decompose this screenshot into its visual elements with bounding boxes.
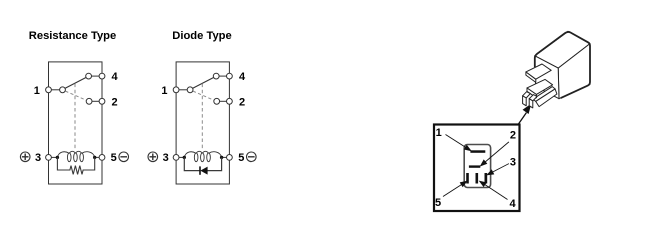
minus polarity symbol (K2) [247, 152, 257, 162]
svg-text:2: 2 [510, 130, 516, 142]
junction dot left (K2) [183, 156, 186, 159]
wire NO contact to pin4 (K1) [89, 75, 102, 77]
NC contact circle (K1) [86, 98, 92, 104]
relay top face [535, 31, 590, 68]
junction dot left (K1) [56, 156, 59, 159]
svg-text:1: 1 [436, 127, 442, 139]
NC contact circle (K2) [214, 98, 220, 104]
svg-text:2: 2 [111, 97, 117, 109]
svg-text:5: 5 [435, 197, 441, 209]
svg-text:Resistance Type: Resistance Type [29, 30, 116, 42]
relay K1 (Resistance Type) outline box [49, 62, 103, 184]
wire diode branch (K2) [184, 157, 221, 170]
plus polarity symbol (K2) [148, 152, 158, 162]
relay left face [535, 56, 559, 99]
relay blade pin C (small left) [523, 92, 531, 106]
resistor R (K1 parallel resistor) [57, 157, 94, 174]
svg-text:3: 3 [163, 152, 169, 164]
plus polarity symbol (K1) [20, 152, 30, 162]
svg-text:4: 4 [239, 71, 246, 83]
wire pin3 to coil (K1) [51, 156, 57, 158]
svg-text:4: 4 [111, 71, 118, 83]
wire coil to pin5 (K2) [222, 156, 227, 158]
pin 1 slot [470, 150, 485, 153]
terminal circle pin 3 (K1) [46, 155, 52, 161]
pin 2 slot [469, 165, 480, 167]
leader arrow for pin 5 [443, 181, 467, 196]
relay 3D body [535, 31, 590, 98]
junction dot right (K1) [93, 156, 96, 159]
pivot terminal circle (K1) [60, 87, 66, 93]
wire pin3 to coil (K2) [179, 156, 184, 158]
terminal circle pin 4 (K2) [227, 73, 233, 79]
minus polarity symbol (K1) [119, 152, 129, 162]
svg-text:1: 1 [161, 85, 167, 97]
svg-text:3: 3 [35, 152, 41, 164]
terminal circle pin 3 (K2) [173, 155, 179, 161]
svg-text:3: 3 [510, 157, 516, 169]
relay blade pin E (front wide) [533, 87, 557, 107]
terminal circle pin 2 (K2) [227, 98, 233, 104]
switch common arm contact (K2) [193, 77, 214, 88]
wire pin2 contact (K1) [89, 100, 102, 102]
wire pin2 contact (K2) [217, 100, 230, 102]
terminal circle pin 5 (K1) [99, 155, 105, 161]
actuation dashed link (K1) [74, 84, 76, 149]
terminal circle pin 2 (K1) [99, 98, 105, 104]
wire NO contact to pin4 (K2) [216, 75, 229, 77]
wire coil to pin5 (K1) [95, 156, 99, 158]
dashed alternate contact position (K2) [193, 91, 214, 100]
relay right face [558, 44, 590, 99]
pin identification box [434, 125, 520, 212]
leader arrow for pin 3 [487, 164, 509, 175]
switch common arm contact (K1) [65, 77, 86, 88]
svg-text:5: 5 [111, 152, 117, 164]
relay outer thick edges [535, 32, 590, 98]
NO contact circle (K2) [213, 73, 219, 79]
wire pin1 to pivot (K1) [49, 89, 63, 91]
relay blade pin D (small middle) [529, 95, 537, 108]
svg-text:1: 1 [34, 85, 40, 97]
svg-text:5: 5 [238, 152, 244, 164]
wire pin1 to pivot (K2) [176, 89, 190, 91]
pin 3 slot [485, 173, 488, 184]
svg-text:Diode Type: Diode Type [172, 30, 231, 42]
relay blade pin A (top) [526, 64, 551, 82]
terminal circle pin 5 (K2) [227, 155, 233, 161]
relay coil L2 (K2) [184, 151, 221, 161]
terminal circle pin 1 (K2) [173, 87, 179, 93]
leader arrow for pin 4 [480, 181, 508, 199]
NO contact circle (K1) [86, 73, 92, 79]
relay K2 (Diode Type) outline box [176, 62, 229, 184]
arrow from pin box to relay [518, 105, 530, 124]
actuation dashed link (K2) [201, 84, 203, 149]
pin 4 slot [476, 173, 479, 184]
junction dot right (K2) [220, 156, 223, 159]
relay blade pin B (middle) [527, 79, 553, 97]
pivot terminal circle (K2) [187, 87, 193, 93]
diode D1 anode triangle (K2) [200, 167, 207, 175]
dashed alternate contact position (K1) [65, 91, 86, 100]
leader arrow for pin 1 [446, 135, 471, 151]
terminal circle pin 1 (K1) [46, 87, 52, 93]
leader arrow for pin 2 [481, 142, 509, 166]
diode D1 cathode bar (K2) [199, 166, 201, 174]
svg-text:2: 2 [239, 97, 245, 109]
terminal circle pin 4 (K1) [99, 73, 105, 79]
svg-text:4: 4 [510, 198, 517, 210]
pin 5 slot [466, 173, 469, 184]
connector footprint outline [464, 145, 490, 188]
relay coil L1 (K1) [57, 151, 94, 161]
